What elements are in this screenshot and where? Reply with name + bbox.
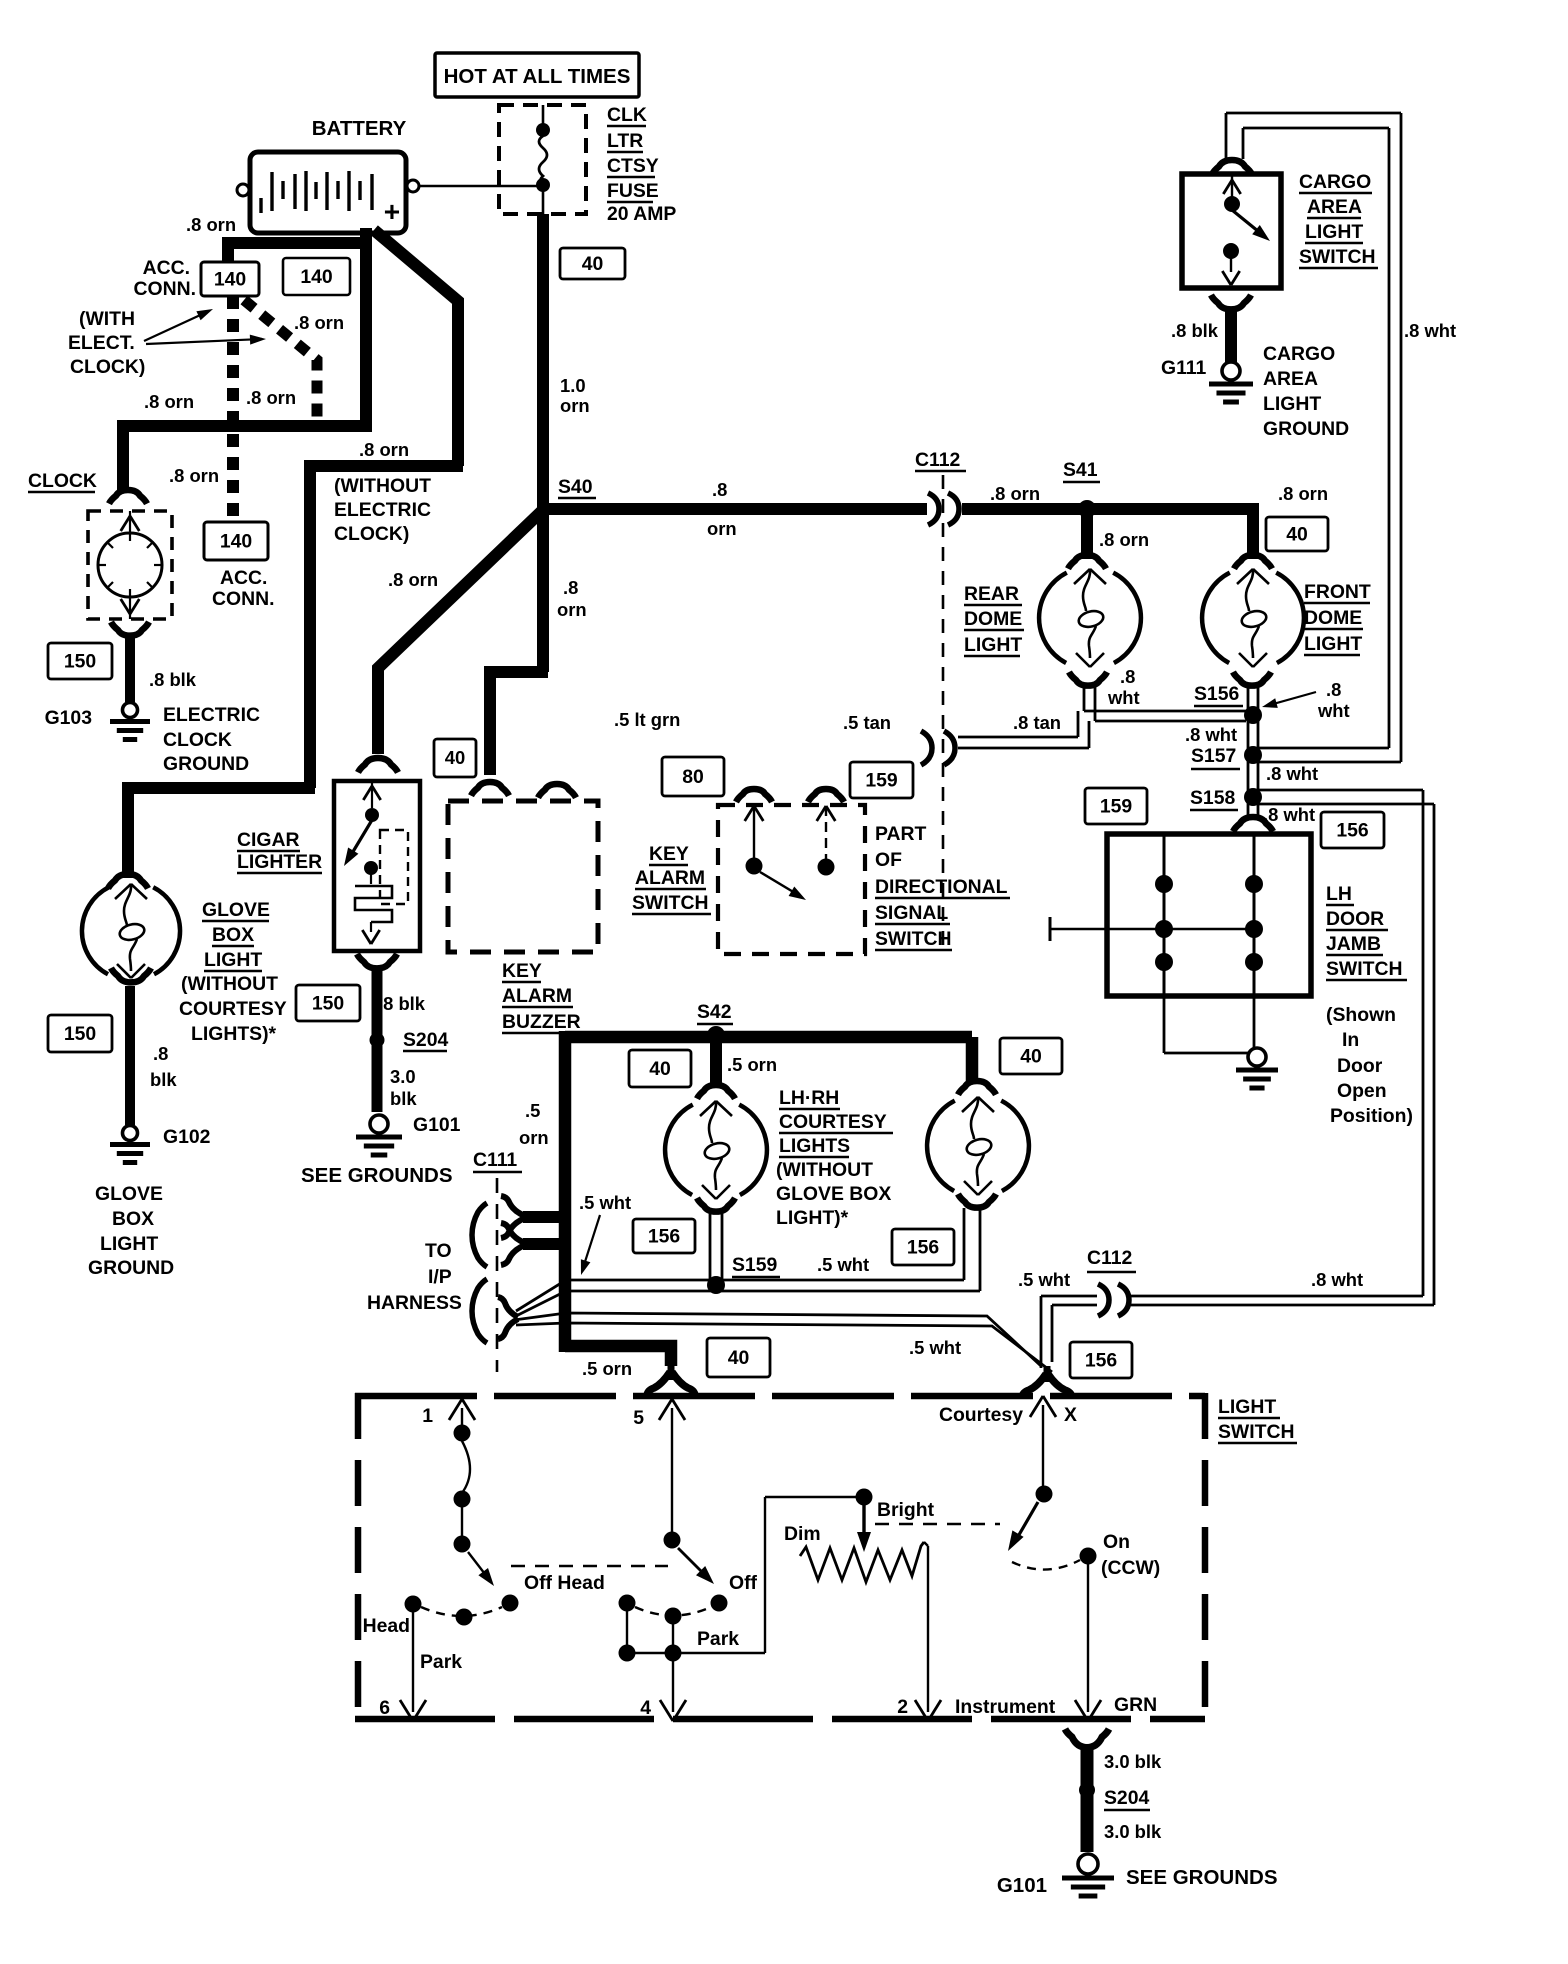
svg-text:.5 lt grn: .5 lt grn: [614, 709, 680, 730]
svg-text:.5 wht: .5 wht: [579, 1192, 631, 1213]
svg-text:140: 140: [300, 266, 332, 288]
svg-text:LIGHTER: LIGHTER: [237, 851, 322, 873]
svg-text:LH·RH: LH·RH: [779, 1087, 839, 1109]
svg-text:LH: LH: [1326, 883, 1352, 905]
svg-text:.8 wht: .8 wht: [1185, 724, 1237, 745]
svg-text:S204: S204: [1104, 1787, 1150, 1809]
circuit ref 156 (lh): [633, 1219, 695, 1253]
svg-text:SEE GROUNDS: SEE GROUNDS: [301, 1164, 453, 1187]
svg-text:Park: Park: [420, 1651, 462, 1673]
wire S158 loop (.8 wht): [1258, 789, 1423, 792]
ground G101: [370, 1115, 388, 1133]
circuit ref 156 (courtesy feed): [1070, 1342, 1132, 1378]
wire glove box to ground (.8 blk): [125, 986, 135, 1125]
wire S157 pair to cargo loop: [1258, 747, 1389, 750]
svg-text:S42: S42: [697, 1001, 732, 1023]
svg-text:Off: Off: [729, 1572, 758, 1594]
svg-text:ALARM: ALARM: [635, 867, 705, 889]
svg-text:.8 orn: .8 orn: [388, 569, 438, 590]
svg-text:I/P: I/P: [428, 1266, 452, 1288]
svg-text:DOME: DOME: [1304, 607, 1362, 629]
wire lh courtesy down pair: [709, 1212, 712, 1280]
front dome light connector top: [1234, 555, 1272, 569]
svg-text:DIRECTIONAL: DIRECTIONAL: [875, 876, 1008, 898]
svg-text:SEE GROUNDS: SEE GROUNDS: [1126, 1866, 1278, 1889]
svg-text:Off Head: Off Head: [524, 1572, 605, 1594]
arrow to S156: [1266, 692, 1316, 706]
svg-text:ELECTRIC: ELECTRIC: [163, 704, 260, 726]
wire .8 tan pair: [958, 736, 1078, 739]
svg-text:.5: .5: [525, 1100, 540, 1121]
svg-text:LTR: LTR: [607, 130, 643, 152]
svg-text:80: 80: [682, 766, 704, 788]
svg-text:1: 1: [422, 1405, 433, 1427]
svg-text:orn: orn: [519, 1127, 549, 1148]
bright arrow to rheostat: [862, 1505, 865, 1540]
svg-text:LIGHTS)*: LIGHTS)*: [191, 1023, 277, 1045]
terminal 6 (head/park): [412, 1612, 414, 1712]
cigar lighter connector top: [358, 758, 398, 772]
svg-text:ALARM: ALARM: [502, 985, 572, 1007]
svg-text:4: 4: [640, 1697, 651, 1719]
svg-text:S158: S158: [1190, 787, 1236, 809]
circuit ref 159 (dir sig): [850, 762, 913, 798]
svg-text:40: 40: [582, 253, 604, 275]
svg-text:3.0: 3.0: [390, 1066, 416, 1087]
svg-text:CLK: CLK: [607, 104, 647, 126]
terminal courtesy X: [1030, 1396, 1043, 1417]
svg-text:.8 orn: .8 orn: [169, 465, 219, 486]
svg-text:3.0 blk: 3.0 blk: [1104, 1751, 1162, 1772]
svg-text:CLOCK): CLOCK): [70, 356, 145, 378]
svg-text:.8 blk: .8 blk: [149, 669, 197, 690]
svg-text:ACC.: ACC.: [143, 257, 190, 279]
svg-text:GLOVE BOX: GLOVE BOX: [776, 1183, 891, 1205]
terminal 4: [672, 1653, 674, 1712]
fuse element: [542, 105, 545, 126]
arrow to 140: [144, 311, 209, 341]
glove box light connector top: [108, 874, 148, 888]
cigar lighter connector bottom: [357, 954, 397, 968]
svg-text:BATTERY: BATTERY: [312, 117, 407, 140]
battery left terminal: [237, 184, 249, 196]
wire front dome white pair: [1247, 684, 1250, 815]
svg-text:.8 orn: .8 orn: [359, 439, 409, 460]
svg-text:AREA: AREA: [1263, 368, 1318, 390]
svg-text:.8 blk: .8 blk: [1171, 320, 1219, 341]
svg-text:LIGHT: LIGHT: [1304, 633, 1362, 655]
circuit ref 40 (fuse output): [560, 248, 625, 279]
svg-text:CARGO: CARGO: [1263, 343, 1335, 365]
splice S204: [370, 1033, 385, 1048]
svg-text:.5 orn: .5 orn: [582, 1358, 632, 1379]
wire diagonal to cigar lighter: [378, 509, 544, 754]
cigar lighter box: [334, 781, 420, 951]
svg-text:156: 156: [1336, 819, 1369, 841]
wire clock to ground (.8 blk): [125, 638, 135, 702]
on (ccw) dot: [1080, 1548, 1097, 1565]
svg-text:Bright: Bright: [877, 1499, 935, 1521]
svg-text:Park: Park: [697, 1628, 739, 1650]
svg-text:LIGHT: LIGHT: [1263, 393, 1321, 415]
svg-text:2: 2: [897, 1696, 908, 1718]
svg-text:GRN: GRN: [1114, 1694, 1157, 1716]
svg-text:GLOVE: GLOVE: [95, 1183, 163, 1205]
svg-text:(WITHOUT: (WITHOUT: [776, 1159, 873, 1181]
cargo area light switch connector: [1212, 160, 1252, 174]
splice S204 (bottom): [1079, 1782, 1095, 1798]
svg-text:40: 40: [728, 1347, 750, 1369]
C111 bracket 2: [472, 1279, 487, 1343]
head dot: [405, 1596, 422, 1613]
key alarm buzzer connector: [471, 782, 509, 796]
splice S157: [1244, 746, 1262, 764]
svg-text:DOME: DOME: [964, 608, 1022, 630]
wire rear dome white pair: [1083, 684, 1086, 711]
dashed wiper arc 2: [635, 1607, 711, 1616]
svg-text:On: On: [1103, 1531, 1130, 1553]
svg-text:LIGHT: LIGHT: [100, 1233, 158, 1255]
wire battery to clock run: [360, 228, 372, 432]
hot-at-all-times box: [435, 53, 639, 97]
svg-text:.8: .8: [1120, 666, 1135, 687]
svg-text:20 AMP: 20 AMP: [607, 203, 676, 225]
wire fuse to S40 (1.0 orn): [537, 214, 549, 517]
svg-text:.5 wht: .5 wht: [1018, 1269, 1070, 1290]
svg-text:CARGO: CARGO: [1299, 171, 1371, 193]
svg-text:156: 156: [648, 1225, 681, 1247]
glove box light connector bottom: [111, 968, 151, 982]
ground G103: [123, 703, 138, 718]
svg-text:150: 150: [312, 992, 344, 1014]
dashed wiper arc 3: [1012, 1560, 1080, 1570]
cargo switch element: [1223, 180, 1232, 194]
park contacts: [619, 1595, 636, 1612]
svg-text:40: 40: [1020, 1045, 1042, 1067]
dashed wire from 140 diagonal: [244, 300, 317, 421]
svg-text:.8: .8: [712, 479, 727, 500]
front dome light connector bottom: [1233, 672, 1271, 686]
connector 140 box3 (acc conn): [204, 522, 268, 560]
cargo switch connector bottom: [1211, 295, 1251, 309]
svg-text:Position): Position): [1330, 1105, 1413, 1127]
dashed wire from 140 (with clock) vertical: [227, 296, 239, 522]
key alarm switch connector 2: [808, 789, 844, 802]
svg-text:GROUND: GROUND: [1263, 418, 1349, 440]
glove box light bulb: [82, 887, 109, 974]
buzzer spare connector: [538, 784, 576, 798]
wire pair C112 to fork: [1041, 1295, 1097, 1298]
wire .5 orn to light switch: [565, 1346, 671, 1366]
svg-text:orn: orn: [560, 395, 590, 416]
svg-text:159: 159: [1100, 795, 1133, 817]
svg-text:LIGHT: LIGHT: [204, 949, 262, 971]
cigar lighter element: [363, 786, 372, 800]
svg-text:S157: S157: [1191, 745, 1236, 767]
svg-text:wht: wht: [1317, 700, 1350, 721]
svg-text:ELECTRIC: ELECTRIC: [334, 499, 431, 521]
svg-text:G111: G111: [1161, 357, 1207, 379]
front dome light bulb: [1202, 573, 1230, 663]
svg-text:.8 orn: .8 orn: [990, 483, 1040, 504]
ground G111: [1222, 362, 1240, 380]
wire park to rheostat riser: [627, 1652, 765, 1654]
svg-text:159: 159: [865, 769, 898, 791]
svg-text:40: 40: [649, 1058, 671, 1080]
svg-text:.8 orn: .8 orn: [1278, 483, 1328, 504]
svg-text:.8 wht: .8 wht: [1266, 763, 1318, 784]
svg-text:.8: .8: [153, 1043, 168, 1064]
svg-text:CLOCK: CLOCK: [28, 470, 97, 492]
svg-text:(WITH: (WITH: [79, 308, 135, 330]
svg-text:GLOVE: GLOVE: [202, 899, 270, 921]
svg-text:BOX: BOX: [112, 1208, 154, 1230]
svg-text:Courtesy: Courtesy: [939, 1404, 1023, 1426]
key alarm buzzer box (dashed): [448, 801, 598, 952]
svg-text:FRONT: FRONT: [1304, 581, 1371, 603]
svg-text:G103: G103: [45, 707, 93, 729]
C111 white fan: [498, 1297, 518, 1317]
svg-text:.5 wht: .5 wht: [909, 1337, 961, 1358]
svg-text:150: 150: [64, 1023, 96, 1045]
circuit ref 150 (clock): [48, 643, 112, 679]
svg-text:TO: TO: [425, 1240, 452, 1262]
svg-text:40: 40: [1286, 523, 1308, 545]
connector 140 box2: [283, 258, 350, 295]
wire rh courtesy down pair: [963, 1208, 966, 1280]
battery right terminal: [407, 180, 419, 192]
svg-text:GROUND: GROUND: [88, 1257, 174, 1279]
tan stub connector at C112: [921, 731, 932, 765]
lh courtesy light connector bottom: [697, 1198, 735, 1212]
svg-text:1.0: 1.0: [560, 375, 586, 396]
C111 bracket 1: [472, 1203, 487, 1267]
rh courtesy light connector: [958, 1081, 996, 1095]
svg-text:.5 orn: .5 orn: [727, 1054, 777, 1075]
wire cargo loop (.8 wht): [1225, 113, 1228, 159]
cargo area light switch box: [1182, 174, 1281, 288]
svg-text:BOX: BOX: [212, 924, 254, 946]
svg-text:C111: C111: [473, 1149, 517, 1171]
rh courtesy light connector bottom: [958, 1194, 996, 1208]
connector 140 box1: [201, 262, 259, 296]
svg-text:CLOCK: CLOCK: [163, 729, 232, 751]
svg-text:SWITCH: SWITCH: [1326, 958, 1402, 980]
svg-text:COURTESY: COURTESY: [179, 998, 287, 1020]
svg-text:CONN.: CONN.: [134, 278, 196, 300]
clock connector top: [109, 490, 147, 504]
svg-text:5: 5: [633, 1407, 644, 1429]
svg-text:X: X: [1064, 1404, 1077, 1426]
svg-text:wht: wht: [1107, 687, 1140, 708]
key alarm / directional switch box (dashed): [718, 805, 865, 954]
lh courtesy light bulb: [665, 1105, 693, 1195]
svg-text:3.0 blk: 3.0 blk: [1104, 1821, 1162, 1842]
svg-text:ELECT.: ELECT.: [68, 332, 135, 354]
svg-text:Head: Head: [363, 1615, 410, 1637]
circuit ref 156 (jamb): [1321, 812, 1384, 848]
dashed wiper arc 1: [421, 1607, 502, 1616]
jamb switch contacts: [1163, 834, 1166, 996]
rheostat: [800, 1542, 924, 1582]
ground (jamb switch): [1248, 1048, 1266, 1066]
svg-text:S41: S41: [1063, 459, 1098, 481]
circuit ref 40 (buzzer): [434, 739, 476, 777]
switch contact chain 2: [664, 1532, 681, 1549]
svg-text:G102: G102: [163, 1126, 210, 1148]
svg-text:.8 orn: .8 orn: [294, 312, 344, 333]
wire battery to fuse: [419, 185, 537, 188]
svg-text:(WITHOUT: (WITHOUT: [334, 475, 431, 497]
svg-text:.8 wht: .8 wht: [1263, 804, 1315, 825]
fuse CLK LTR CTSY 20A (dashed box): [499, 105, 586, 214]
wire cargo switch to ground (.8 blk): [1225, 310, 1237, 362]
svg-text:156: 156: [1085, 1349, 1118, 1371]
dashed line off level: [511, 1565, 668, 1567]
splice S159: [707, 1276, 725, 1294]
svg-text:S40: S40: [558, 476, 593, 498]
key alarm switch contacts: [745, 806, 754, 821]
svg-text:.8 tan: .8 tan: [1013, 712, 1061, 733]
wire light switch to ground (3.0 blk): [1065, 1729, 1109, 1747]
svg-text:S159: S159: [732, 1254, 778, 1276]
svg-text:.8 orn: .8 orn: [186, 214, 236, 235]
svg-text:LIGHT: LIGHT: [1305, 221, 1363, 243]
svg-text:S156: S156: [1194, 683, 1240, 705]
svg-text:CLOCK): CLOCK): [334, 523, 409, 545]
svg-text:+: +: [384, 196, 400, 227]
svg-text:40: 40: [445, 747, 465, 768]
circuit ref 40 (lh courtesy): [629, 1050, 691, 1087]
wire white pair 2 to light switch: [514, 1313, 1041, 1366]
lh door jamb switch box: [1107, 834, 1311, 996]
svg-text:.8 wht: .8 wht: [1311, 1269, 1363, 1290]
svg-text:150: 150: [64, 650, 96, 672]
terminal 5: [659, 1399, 672, 1420]
C111 orange stubs: [523, 1211, 570, 1223]
svg-text:BUZZER: BUZZER: [502, 1011, 581, 1033]
jamb switch actuator line: [1049, 917, 1052, 941]
ground G101 (bottom): [1078, 1854, 1098, 1874]
circuit ref 150 (cigar): [296, 985, 360, 1021]
circuit ref 40 (rh courtesy): [1000, 1038, 1062, 1074]
switch contact chain 1: [454, 1425, 471, 1442]
svg-text:.8: .8: [1326, 679, 1341, 700]
circuit ref 40 (dome): [1266, 517, 1328, 551]
wire white pair 1 (.5 wht): [516, 1280, 964, 1311]
svg-text:blk: blk: [390, 1088, 417, 1109]
svg-text:SWITCH: SWITCH: [875, 928, 951, 950]
svg-text:CONN.: CONN.: [212, 588, 274, 610]
svg-text:REAR: REAR: [964, 583, 1019, 605]
circuit ref 80: [662, 757, 724, 796]
svg-text:6: 6: [379, 1697, 390, 1719]
svg-text:(CCW): (CCW): [1101, 1557, 1160, 1579]
terminal 2: [927, 1546, 929, 1712]
svg-text:JAMB: JAMB: [1326, 933, 1381, 955]
rear dome light bulb: [1039, 573, 1067, 663]
svg-text:orn: orn: [707, 518, 737, 539]
svg-text:HARNESS: HARNESS: [367, 1292, 462, 1314]
fork to light switch 5: [668, 1364, 675, 1380]
fork to light switch courtesy: [1044, 1366, 1051, 1382]
svg-text:.8 orn: .8 orn: [144, 391, 194, 412]
wire S42 run (.5 orn): [559, 1031, 572, 1352]
svg-text:(Shown: (Shown: [1326, 1004, 1396, 1026]
svg-text:blk: blk: [150, 1069, 177, 1090]
clock connector bottom: [111, 622, 149, 636]
svg-text:C112: C112: [1087, 1247, 1132, 1269]
terminal 1: [449, 1399, 462, 1420]
circuit ref 159 (jamb): [1085, 788, 1147, 824]
svg-text:.8 orn: .8 orn: [1099, 529, 1149, 550]
svg-text:GROUND: GROUND: [163, 753, 249, 775]
svg-text:LIGHT: LIGHT: [964, 634, 1022, 656]
svg-text:.8 wht: .8 wht: [1404, 320, 1456, 341]
svg-text:SWITCH: SWITCH: [1218, 1421, 1294, 1443]
svg-text:Open: Open: [1337, 1080, 1387, 1102]
svg-text:DOOR: DOOR: [1326, 908, 1384, 930]
key alarm switch connector 1: [736, 789, 772, 802]
terminal GRN: [1087, 1564, 1089, 1712]
svg-text:ACC.: ACC.: [220, 567, 267, 589]
wire to glove box light: [128, 788, 315, 878]
wire S41 to rear dome: [1081, 509, 1093, 559]
svg-text:PART: PART: [875, 823, 927, 845]
svg-text:HOT AT ALL TIMES: HOT AT ALL TIMES: [444, 65, 631, 88]
svg-text:SIGNAL: SIGNAL: [875, 902, 948, 924]
svg-text:KEY: KEY: [649, 843, 689, 865]
courtesy wiper: [1036, 1486, 1053, 1503]
svg-text:G101: G101: [997, 1874, 1047, 1897]
svg-text:COURTESY: COURTESY: [779, 1111, 887, 1133]
wire S40 branch to cigar lighter (.8 orn): [537, 512, 549, 672]
wire cigar to ground (.8 blk / 3.0 blk): [372, 970, 383, 1112]
svg-text:FUSE: FUSE: [607, 180, 659, 202]
wire bar1 to clock: [123, 426, 371, 492]
svg-text:LIGHTS: LIGHTS: [779, 1135, 850, 1157]
clock (dashed box): [88, 511, 172, 619]
svg-text:SWITCH: SWITCH: [632, 892, 708, 914]
wire battery diagonal to glove box feed: [374, 230, 458, 466]
svg-text:LIGHT)*: LIGHT)*: [776, 1207, 849, 1229]
svg-text:156: 156: [907, 1236, 940, 1258]
svg-text:S204: S204: [403, 1029, 449, 1051]
wire main .8 orn run: [543, 503, 927, 515]
svg-text:LIGHT: LIGHT: [1218, 1396, 1276, 1418]
svg-text:Dim: Dim: [784, 1523, 821, 1545]
svg-text:AREA: AREA: [1307, 196, 1362, 218]
svg-text:140: 140: [214, 268, 246, 290]
svg-text:CTSY: CTSY: [607, 155, 659, 177]
svg-text:In: In: [1342, 1029, 1359, 1051]
svg-text:140: 140: [220, 530, 252, 552]
circuit ref 40 (bottom): [707, 1338, 770, 1377]
wire to front dome: [1247, 514, 1259, 559]
svg-text:.8 orn: .8 orn: [246, 387, 296, 408]
svg-text:.8: .8: [563, 577, 578, 598]
svg-text:.8 blk: .8 blk: [378, 993, 426, 1014]
dashed line dim level: [875, 1523, 1000, 1525]
battery B1: [250, 152, 406, 233]
circuit ref 150 (glove): [48, 1015, 112, 1052]
jamb switch connector top: [1233, 817, 1273, 831]
lh courtesy light connector: [697, 1085, 735, 1099]
svg-text:Instrument: Instrument: [955, 1696, 1056, 1718]
svg-text:C112: C112: [915, 449, 960, 471]
rear dome light connector bottom: [1069, 672, 1107, 686]
arrow to dashed wire: [146, 339, 262, 344]
